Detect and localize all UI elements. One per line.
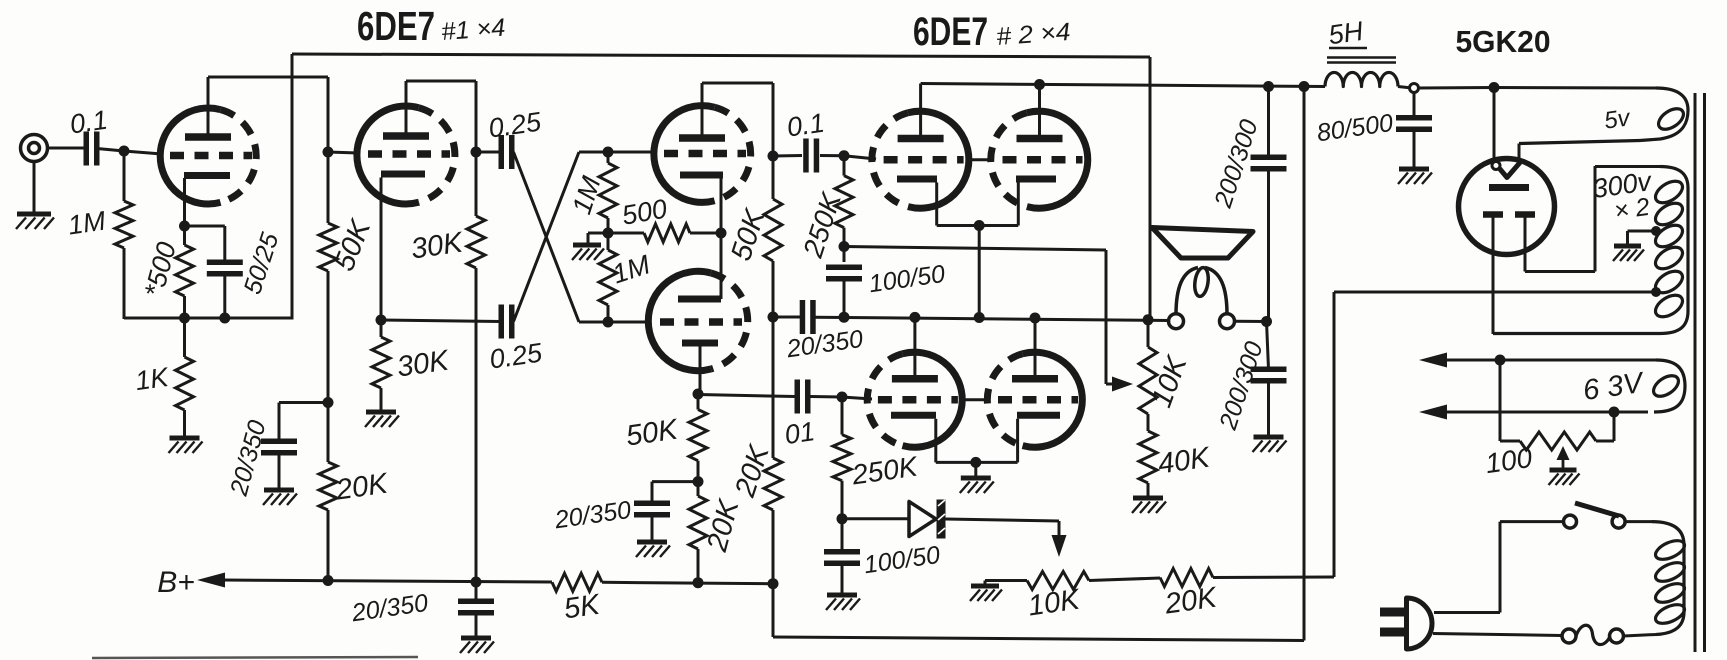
label 5v — [1603, 104, 1634, 135]
arrow heater 1 — [1419, 353, 1447, 368]
label 30K — [409, 226, 466, 265]
capacitor C6 0.1 — [806, 139, 817, 173]
wire R4 to R5 — [327, 271, 330, 462]
resistor R11 50K — [764, 156, 782, 317]
node decouple 2 — [693, 476, 704, 487]
ground (input jack) — [16, 214, 54, 229]
node B+ join — [768, 578, 779, 589]
wire diode out — [946, 519, 1060, 537]
V7 cathode lead — [934, 419, 937, 463]
label 30K cathode — [395, 344, 452, 383]
V9 anode left lead — [1492, 218, 1495, 335]
wire bus to C7 — [773, 316, 801, 319]
ground (CT) — [1613, 246, 1644, 261]
switch S1 — [1564, 503, 1626, 528]
rectifier V9 5GK20 — [1459, 159, 1555, 255]
V6 plate lead — [1038, 85, 1041, 136]
wire to C4 — [476, 151, 500, 154]
label 1M — [66, 206, 108, 241]
resistor R5 20K — [319, 462, 337, 581]
node bootstrap — [768, 312, 779, 323]
node grid V2 — [323, 147, 334, 158]
node bus-V8 — [1030, 313, 1041, 324]
capacitor C12 200/300 — [1251, 322, 1287, 437]
wire hum pot left — [1500, 360, 1520, 441]
ground (bias) — [572, 245, 604, 260]
wire cross upper — [514, 152, 580, 322]
capacitor C7 20/350 — [802, 300, 813, 334]
capacitor C3 20/350 — [261, 441, 297, 453]
node heater 1 — [1495, 355, 1506, 366]
label 1M lower — [609, 249, 654, 289]
capacitor C14 100/50 — [824, 519, 860, 594]
ground (C15) — [1398, 169, 1432, 184]
V6 cathode lead — [1017, 183, 1020, 226]
node grid V3 — [603, 147, 614, 158]
node cathodes V3 V4 — [716, 228, 727, 239]
wire bus to terminal — [1169, 319, 1171, 323]
winding 5V — [1494, 88, 1688, 162]
capacitor C11 200/300 — [1251, 87, 1287, 322]
V4 plate lead — [699, 347, 702, 395]
label 5H — [1327, 16, 1367, 51]
svg-text:B+: B+ — [157, 566, 195, 599]
label 250K lower — [849, 451, 920, 491]
resistor R19 10K — [1139, 320, 1157, 431]
node rail C11 — [1263, 81, 1274, 92]
wire C9 out — [810, 395, 842, 399]
label 500 splitter — [620, 193, 670, 230]
label 5K — [562, 589, 603, 626]
label 0.1 out — [785, 108, 826, 143]
svg-text:# 2 ×4: # 2 ×4 — [995, 18, 1071, 51]
resistor R13 50K — [689, 394, 707, 482]
V2 plate lead — [406, 81, 476, 152]
wire CT ground — [1628, 231, 1657, 245]
speaker cone — [1152, 228, 1253, 259]
input jack J1 — [21, 135, 48, 214]
wire C1 to grid node — [97, 149, 162, 155]
triode V2 6DE7 — [357, 106, 455, 204]
capacitor C4 0.25 — [501, 135, 512, 169]
resistor R4 50K — [319, 223, 337, 271]
node CT — [1651, 226, 1661, 236]
label 1K — [133, 362, 171, 396]
wire cathode to C2 — [185, 225, 225, 228]
transformer core — [1695, 93, 1705, 652]
resistor R2 500 — [176, 226, 194, 319]
resistor R9 1M — [599, 233, 617, 322]
svg-text:100: 100 — [1483, 442, 1534, 479]
wire grid V2 — [328, 152, 358, 153]
resistor R16 250K — [835, 156, 853, 247]
node V4 plate — [693, 389, 704, 400]
feedback wire up — [291, 54, 294, 320]
wire C3 to ground — [278, 453, 281, 489]
capacitor C1 0.1 — [86, 132, 97, 166]
node bias tap — [1651, 287, 1661, 297]
node B+ R5 — [323, 575, 334, 586]
label 80/500 — [1315, 109, 1395, 147]
wire to ground — [974, 462, 977, 477]
node B+ R14 — [693, 577, 704, 588]
V8 plate lead — [1034, 318, 1037, 375]
node cathode join — [974, 220, 985, 231]
label 0.1 — [68, 105, 109, 140]
label B+ — [157, 566, 195, 599]
speaker terminal left — [1169, 314, 1184, 329]
label 500 — [139, 239, 182, 300]
wire cross lower — [514, 152, 580, 322]
V7 plate lead — [913, 317, 916, 375]
ground (C13) — [460, 638, 494, 653]
V1 cathode lead — [183, 178, 186, 226]
wire choke out — [1398, 87, 1410, 88]
node rail-R2 — [179, 313, 190, 324]
wire jack to C1 — [48, 147, 85, 150]
capacitor C13 20/350 — [458, 582, 494, 637]
resistor R12 20K — [764, 317, 782, 584]
capacitor C15 80/500 — [1396, 93, 1432, 169]
V2 cathode lead — [380, 178, 383, 321]
wire B+ bottom — [773, 584, 1304, 641]
wire bias to ground — [588, 233, 608, 244]
svg-text:#1 ×4: #1 ×4 — [440, 14, 506, 46]
winding 300V coil — [1652, 177, 1686, 321]
B+ rail — [223, 580, 552, 582]
arrow B+ — [197, 573, 225, 588]
label 20K lower — [701, 495, 746, 556]
resistor R1 1M — [115, 151, 133, 319]
node bus-C10 — [839, 312, 850, 323]
node bias center — [603, 228, 614, 239]
wire grid V7 — [842, 397, 872, 399]
wire cathodes V7V8 — [936, 461, 1018, 464]
wire pot left — [985, 581, 1027, 587]
node V2 cathode — [376, 315, 387, 326]
label 20K bootstrap — [729, 440, 776, 501]
node filter join — [1261, 316, 1272, 327]
label 6DE7 #2 — [913, 10, 1071, 54]
potentiometer 100 — [1520, 432, 1596, 450]
fuse F1 — [1562, 625, 1624, 644]
diode D1 — [909, 500, 946, 539]
label 20K — [333, 467, 391, 506]
voice coil — [1176, 267, 1227, 315]
label 10K pot — [1026, 583, 1083, 622]
label 100 — [1483, 442, 1534, 479]
resistor R8 1M — [599, 152, 617, 233]
winding 6.3V loop — [1650, 372, 1682, 401]
wire cathodes V5V6 — [937, 224, 1019, 227]
V8 cathode lead — [1016, 419, 1019, 463]
node rail B+ down — [1299, 81, 1310, 92]
wire R4 plate line — [327, 77, 330, 223]
label 50K bootstrap — [725, 204, 772, 265]
choke 5H — [1325, 58, 1398, 87]
resistor R20 40K — [1139, 431, 1157, 497]
wire hum pot right — [1596, 412, 1614, 441]
label 1M upper — [566, 172, 606, 217]
tetrode V5 6DE7 — [872, 111, 969, 208]
wire fuse to primary — [1624, 635, 1657, 637]
label 50K — [328, 214, 378, 275]
node grid V1 — [119, 146, 130, 157]
feedback top rail — [292, 54, 1150, 57]
label 20/350 B+ — [349, 589, 430, 628]
terminal choke — [1410, 84, 1419, 93]
node rectifier out — [1489, 82, 1500, 93]
wire cathode to bus — [978, 226, 981, 318]
hum pot wiper — [1557, 446, 1570, 469]
label 100/50 bias — [862, 541, 942, 579]
triode V1 6DE7 — [160, 108, 256, 204]
node plate V2 — [471, 147, 482, 158]
triode V3 6DE7 — [654, 106, 751, 203]
resistor R3 1K — [176, 318, 194, 437]
wire switch to plug — [1434, 522, 1564, 613]
winding 6.3V bottom — [1445, 411, 1648, 414]
resistor R14 20K — [689, 482, 707, 583]
ground (output cathodes) — [960, 478, 994, 493]
wire to filament — [1493, 88, 1496, 162]
V3-V4 cathode link — [720, 178, 723, 299]
node V1 cathode — [179, 221, 190, 232]
ground (R7) — [365, 412, 399, 427]
node V6 plate — [1034, 79, 1045, 90]
label 01 — [783, 416, 817, 450]
arrow fb wiper — [1106, 377, 1133, 392]
wire B+ down — [1303, 87, 1306, 641]
plates rail — [921, 84, 1325, 87]
svg-text:6DE7: 6DE7 — [913, 10, 988, 54]
ground (R3) — [169, 438, 203, 453]
wire pot to R18 — [1089, 578, 1160, 581]
svg-text:6DE7: 6DE7 — [357, 3, 435, 49]
V1 plate lead — [207, 77, 210, 134]
output bus — [815, 317, 1170, 320]
node bus-fb — [1143, 314, 1154, 325]
wire fb line — [844, 247, 1106, 385]
wire to C3 — [279, 403, 328, 442]
capacitor C2 50/25 — [207, 226, 243, 319]
winding 300V outline — [1493, 167, 1688, 334]
label 100/50 upper — [867, 260, 947, 298]
svg-text:5GK20: 5GK20 — [1456, 24, 1551, 59]
B+ rail right — [602, 582, 773, 583]
svg-text:01: 01 — [783, 416, 817, 450]
tetrode V6 6DE7 — [991, 111, 1088, 208]
wire C6 out — [820, 154, 844, 157]
label 0.25 lower — [488, 337, 545, 374]
resistor R21 5K — [552, 573, 602, 591]
label 250K upper — [797, 188, 847, 262]
wire (scan streak) — [92, 657, 418, 658]
node bus-V7 — [909, 312, 920, 323]
resistor R7 30K — [372, 320, 390, 411]
arrow heater 2 — [1419, 405, 1447, 420]
wire plug to fuse — [1433, 634, 1562, 636]
ground (C3) — [263, 490, 297, 505]
node feedback tap — [839, 241, 850, 252]
resistor R18 20K — [1160, 569, 1213, 587]
svg-text:0.1: 0.1 — [68, 105, 109, 140]
wire cathode rail — [124, 317, 292, 320]
capacitor C5 0.25 — [501, 305, 512, 339]
capacitor C10 100/50 — [826, 247, 862, 318]
node grid V4 — [603, 317, 614, 328]
triode V4 6DE7 — [648, 271, 747, 370]
plug P1 — [1380, 598, 1432, 649]
label 10K fb — [1146, 351, 1194, 412]
resistor R6 30K — [467, 152, 485, 583]
ground (hum pot) — [1549, 470, 1580, 485]
node heater 2 — [1609, 407, 1620, 418]
label 20K bias — [1162, 581, 1220, 620]
winding primary coil — [1653, 537, 1687, 627]
node grid V7 — [837, 392, 848, 403]
ground (C12) — [1253, 437, 1287, 452]
node rail-C2 — [219, 313, 230, 324]
label 6.3V — [1581, 367, 1647, 407]
wire C8 ground — [651, 515, 654, 541]
grid link V7-V8 — [961, 398, 988, 401]
svg-text:5H: 5H — [1327, 16, 1366, 51]
capacitor C8 20/350 — [634, 503, 670, 515]
wire to grid V3 — [579, 151, 655, 154]
label 20/350 bus — [784, 325, 865, 364]
wire V4 to C9 — [698, 395, 795, 397]
V3 plate lead — [702, 83, 773, 156]
svg-text:0.1: 0.1 — [785, 108, 826, 143]
resistor R15 250K — [833, 397, 851, 519]
V5 cathode lead — [935, 183, 938, 226]
winding 6.3V top — [1445, 360, 1685, 412]
wire grid V5 — [844, 156, 876, 159]
wire to C8 — [652, 482, 698, 503]
potentiometer 10K — [1027, 572, 1089, 590]
wire R18 to tap — [1213, 292, 1656, 578]
label 0.25 upper — [487, 106, 544, 143]
winding primary outline — [1625, 522, 1684, 635]
label 20/350 — [225, 417, 272, 499]
tetrode V7 6DE7 — [867, 352, 962, 447]
capacitor C9 01 — [797, 380, 808, 414]
node C6 in — [768, 151, 779, 162]
label 50K lower — [624, 413, 681, 452]
label 20/350 lower — [552, 496, 633, 535]
ground (R20) — [1132, 498, 1166, 513]
node bus-cathodes — [974, 312, 985, 323]
label 200/300 upper — [1209, 116, 1264, 212]
wire plate-over V1 — [208, 76, 328, 79]
label 50/25 — [238, 229, 284, 297]
V5 plate lead — [919, 84, 922, 136]
wire to grid V4 — [579, 321, 650, 324]
node B+ R6 — [471, 577, 482, 588]
wire bias to diode — [842, 517, 909, 520]
node grid V5 — [839, 150, 850, 161]
grid link V5-V6 — [966, 158, 993, 161]
wire to rectifier — [1419, 86, 1495, 90]
label 300v x2 — [1591, 166, 1655, 225]
arrow to pot — [1052, 535, 1067, 557]
label 200/300 lower — [1214, 338, 1269, 434]
speaker terminal right — [1220, 314, 1235, 329]
svg-text:5K: 5K — [562, 589, 603, 626]
ground (10K pot) — [970, 586, 1002, 601]
svg-text:1M: 1M — [66, 206, 108, 241]
V9 anode right lead — [1525, 166, 1595, 272]
svg-text:1K: 1K — [133, 362, 171, 396]
node cathode gnd — [970, 457, 981, 468]
tetrode V8 6DE7 — [987, 352, 1082, 447]
label 5GK20 — [1456, 24, 1551, 59]
label 6DE7 #1 — [357, 3, 506, 49]
ground (C8) — [636, 542, 670, 557]
label 40K — [1156, 441, 1213, 480]
wire to C6 — [773, 154, 802, 158]
node decouple 1 — [323, 397, 334, 408]
resistor R10 500 — [608, 224, 721, 242]
wire terminal right — [1235, 320, 1267, 323]
feedback wire down — [1149, 57, 1152, 320]
node bias node — [837, 513, 848, 524]
svg-text:× 2: × 2 — [1612, 193, 1651, 226]
ground (C14) — [826, 595, 860, 610]
wire cathode V2 to C5 — [381, 320, 500, 322]
